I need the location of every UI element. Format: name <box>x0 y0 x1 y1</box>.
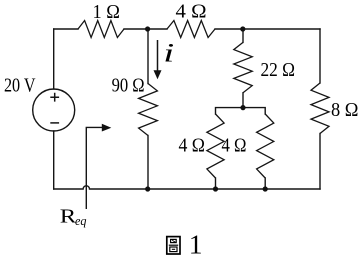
svg-text:4 Ω: 4 Ω <box>176 1 207 22</box>
svg-text:eq: eq <box>75 213 87 228</box>
svg-text:8 Ω: 8 Ω <box>331 99 359 121</box>
svg-text:1: 1 <box>189 229 203 258</box>
svg-text:90 Ω: 90 Ω <box>112 76 145 97</box>
svg-text:i: i <box>163 39 174 68</box>
svg-text:20 V: 20 V <box>4 76 36 97</box>
svg-text:1 Ω: 1 Ω <box>93 2 121 23</box>
svg-text:4 Ω: 4 Ω <box>179 136 206 157</box>
svg-text:22 Ω: 22 Ω <box>261 60 296 81</box>
svg-text:4 Ω: 4 Ω <box>222 136 247 157</box>
svg-text:R: R <box>60 207 77 228</box>
